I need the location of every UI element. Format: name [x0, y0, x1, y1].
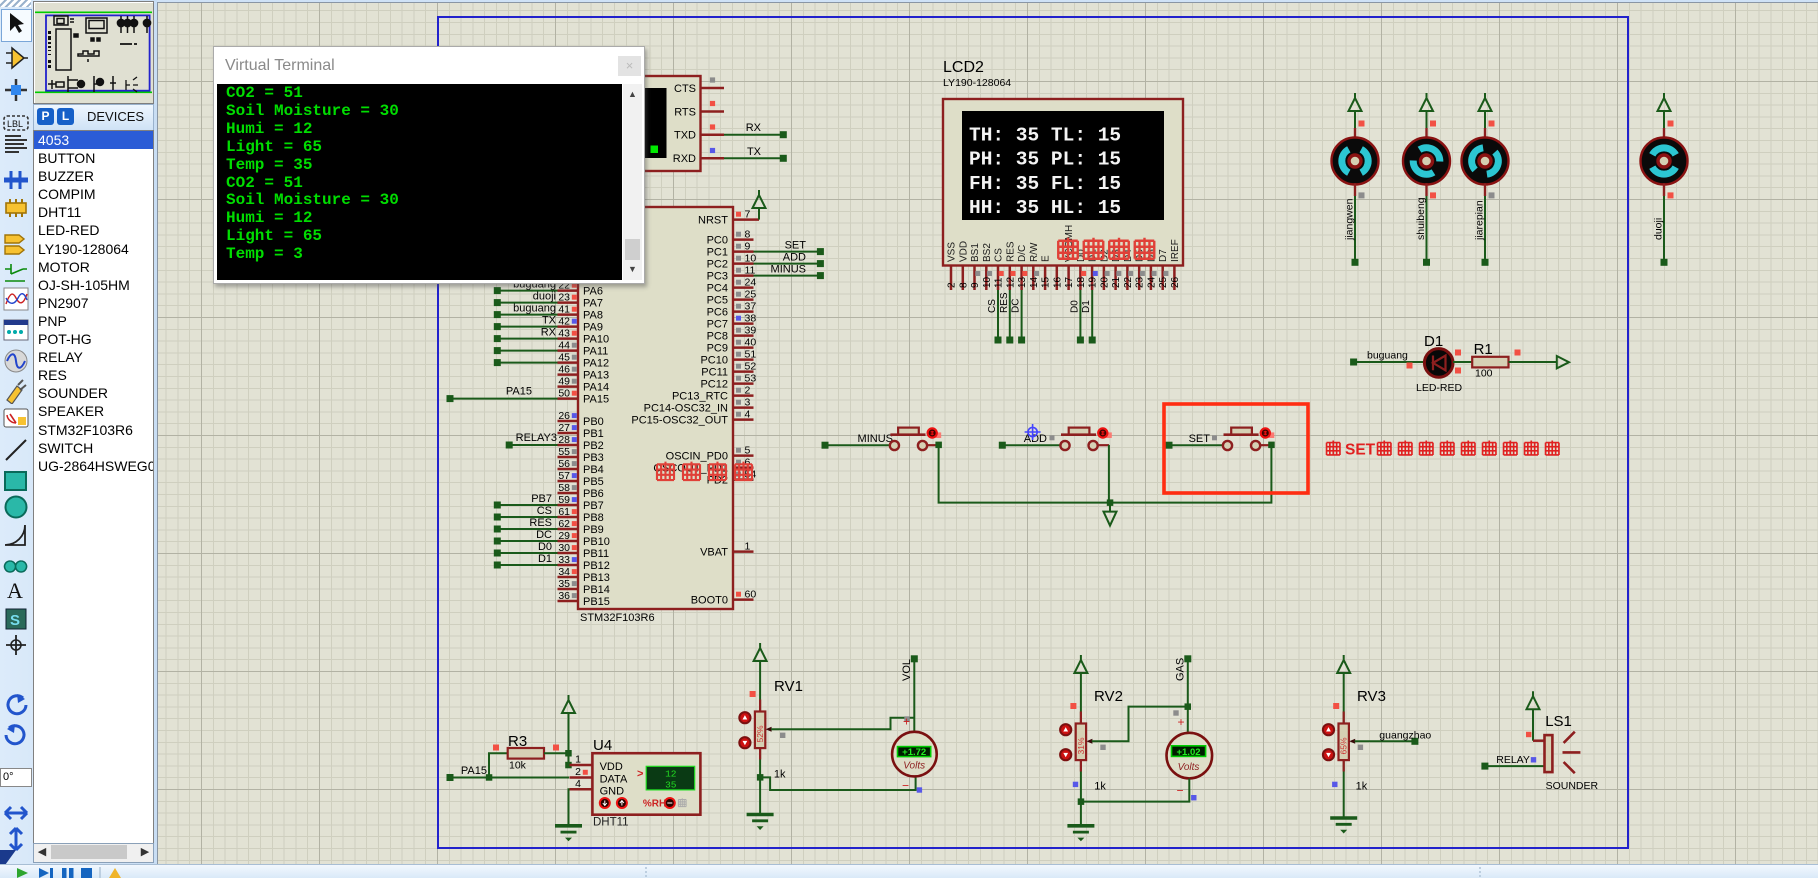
svg-text:12: 12	[665, 769, 677, 780]
power symbol above RV1	[754, 643, 767, 712]
svg-text:BOOT0: BOOT0	[691, 594, 728, 606]
terminal VOL	[901, 655, 918, 732]
svg-text:PA15: PA15	[461, 765, 487, 777]
red annotation text 按SET键进入报警参数设置	[1327, 441, 1559, 459]
svg-text:jiangwen: jiangwen	[1344, 198, 1356, 241]
bottom status / simulation bar	[0, 864, 1818, 878]
wire RV2 bottom to voltmeter minus	[1081, 779, 1197, 802]
svg-text:FH: 35 FL: 15: FH: 35 FL: 15	[969, 173, 1121, 195]
svg-text:1: 1	[575, 754, 581, 766]
svg-text:D0: D0	[538, 541, 552, 553]
svg-text:RELAY: RELAY	[1496, 754, 1530, 766]
svg-text:8: 8	[958, 282, 969, 288]
svg-text:PB4: PB4	[583, 464, 604, 476]
svg-text:39: 39	[745, 324, 757, 336]
svg-text:buguang: buguang	[1367, 350, 1408, 362]
svg-text:30: 30	[558, 542, 570, 554]
svg-text:TX: TX	[542, 315, 557, 327]
schematic sheet border	[438, 17, 1628, 848]
svg-text:PC0: PC0	[707, 234, 728, 246]
svg-text:MINUS: MINUS	[771, 264, 806, 276]
DHT11 sensor U4	[570, 737, 701, 829]
svg-text:60: 60	[745, 588, 757, 600]
svg-text:VDD: VDD	[958, 241, 969, 262]
svg-text:58: 58	[558, 482, 570, 494]
wire RES from LCD2	[999, 290, 1014, 344]
svg-text:+1.72: +1.72	[902, 747, 926, 758]
svg-text:CS: CS	[987, 299, 998, 313]
svg-text:DC: DC	[536, 529, 552, 541]
svg-text:E: E	[1041, 255, 1052, 262]
svg-text:PC5: PC5	[707, 294, 728, 306]
svg-text:2: 2	[575, 766, 581, 778]
svg-text:27: 27	[558, 422, 570, 434]
svg-text:PA13: PA13	[583, 369, 609, 381]
ground symbol below RV1	[747, 815, 774, 831]
svg-text:28: 28	[558, 434, 570, 446]
svg-text:PB14: PB14	[583, 584, 610, 596]
svg-text:LED-RED: LED-RED	[1416, 382, 1463, 394]
svg-text:PB0: PB0	[583, 416, 604, 428]
potentiometer RV1 1k	[739, 678, 803, 813]
svg-text:NRST: NRST	[698, 214, 728, 226]
svg-text:buguang: buguang	[513, 303, 556, 315]
svg-text:PB7: PB7	[583, 500, 604, 512]
svg-text:D6: D6	[1146, 249, 1157, 262]
svg-text:Volts: Volts	[1178, 762, 1200, 773]
svg-text:CTS: CTS	[674, 83, 696, 95]
svg-text:PA11: PA11	[583, 345, 608, 357]
svg-text:1k: 1k	[774, 769, 786, 781]
svg-text:jiarepian: jiarepian	[1474, 200, 1486, 241]
svg-text:RES: RES	[999, 292, 1010, 313]
svg-text:RV1: RV1	[774, 678, 803, 695]
wire RX from COMPIM TXD	[724, 122, 787, 138]
LCD2 LY190-128064 graphic display	[943, 59, 1183, 290]
wire RX to U1 left pin	[494, 327, 558, 343]
svg-text:+: +	[1177, 715, 1184, 729]
svg-text:PH: 35 PL: 15: PH: 35 PL: 15	[969, 149, 1121, 171]
wire from ADD button down to ground bus	[1108, 445, 1110, 503]
wire D1 from LCD2	[1081, 290, 1096, 344]
svg-text:23: 23	[558, 291, 570, 303]
svg-text:shuibeng: shuibeng	[1415, 197, 1427, 240]
sounder LS1	[1545, 713, 1599, 792]
svg-text:DC: DC	[1011, 299, 1022, 313]
svg-text:57: 57	[558, 470, 570, 482]
wire D0 from LCD2	[1069, 290, 1084, 344]
svg-text:PA10: PA10	[583, 333, 609, 345]
wire MINUS from U1	[754, 264, 824, 280]
svg-text:16: 16	[1052, 276, 1063, 288]
right-pointing terminal arrow	[1557, 356, 1569, 368]
svg-text:52: 52	[745, 360, 757, 372]
svg-text:45: 45	[558, 351, 570, 363]
svg-text:GND: GND	[600, 786, 625, 798]
svg-text:10k: 10k	[509, 760, 527, 772]
svg-text:38: 38	[745, 312, 757, 324]
power symbol above RV3	[1337, 655, 1350, 724]
motor jiarepian	[1462, 93, 1509, 266]
svg-text:>: >	[637, 768, 643, 780]
svg-text:PB2: PB2	[583, 440, 604, 452]
svg-text:51: 51	[745, 348, 757, 360]
svg-text:D1: D1	[1081, 300, 1092, 313]
svg-text:DATA: DATA	[600, 774, 628, 786]
svg-text:OSCIN_PD0: OSCIN_PD0	[666, 450, 728, 462]
svg-text:TX: TX	[747, 146, 762, 158]
svg-text:PC3: PC3	[707, 270, 728, 282]
svg-text:1k: 1k	[1094, 781, 1106, 793]
state squares near D1 and R1	[1407, 350, 1521, 374]
ground symbol below DHT11	[555, 826, 582, 842]
LED D1 LED-RED	[1350, 333, 1462, 394]
svg-text:9: 9	[970, 282, 981, 288]
wire TX from COMPIM RXD	[724, 146, 787, 162]
svg-text:CS: CS	[537, 505, 552, 517]
svg-text:41: 41	[558, 303, 570, 315]
svg-text:LS1: LS1	[1545, 713, 1572, 730]
svg-text:40: 40	[745, 336, 757, 348]
svg-text:TH: 35 TL: 15: TH: 35 TL: 15	[969, 125, 1121, 147]
svg-text:RX: RX	[746, 122, 762, 134]
svg-text:guangzhao: guangzhao	[1379, 730, 1431, 742]
svg-text:D/C: D/C	[1017, 245, 1028, 262]
potentiometer RV2 1k	[1060, 688, 1123, 825]
wire ADD from U1	[754, 252, 824, 268]
svg-text:RES: RES	[1005, 241, 1016, 262]
wire duoji to U1 left pin	[494, 291, 558, 307]
svg-text:14: 14	[1029, 276, 1040, 288]
svg-text:TXD: TXD	[674, 130, 696, 142]
svg-text:VSS: VSS	[947, 242, 958, 262]
svg-text:ADD: ADD	[783, 252, 806, 264]
wire TX to U1 left pin	[494, 315, 558, 331]
push button MINUS	[822, 428, 942, 451]
svg-text:5: 5	[745, 444, 751, 456]
svg-text:7: 7	[745, 208, 751, 220]
motor jiangwen	[1332, 93, 1379, 266]
wire R1 to terminal	[1509, 361, 1557, 363]
red watermark text over U1	[657, 462, 752, 480]
svg-text:Volts: Volts	[903, 761, 925, 772]
svg-text:D1: D1	[538, 553, 552, 565]
svg-text:RX: RX	[541, 327, 557, 339]
svg-text:D7: D7	[1158, 249, 1169, 262]
wire from SET button down to ground bus	[1107, 445, 1272, 506]
svg-text:53: 53	[745, 372, 757, 384]
svg-text:PB6: PB6	[583, 488, 604, 500]
svg-text:29: 29	[558, 530, 570, 542]
svg-text:61: 61	[558, 506, 570, 518]
svg-text:35: 35	[665, 780, 677, 791]
wire DC from LCD2	[1011, 290, 1026, 344]
svg-text:4: 4	[575, 778, 581, 790]
svg-text:D1: D1	[1424, 333, 1443, 350]
svg-text:SET: SET	[1189, 433, 1211, 445]
potentiometer RV3 1k	[1323, 688, 1386, 817]
wire buguang to U1 left pin	[494, 279, 558, 295]
svg-text:55: 55	[558, 446, 570, 458]
svg-text:22: 22	[1123, 276, 1134, 288]
svg-text:VOL: VOL	[901, 659, 913, 681]
svg-text:RV2: RV2	[1094, 688, 1123, 705]
wire RV2 wiper to GAS node	[1092, 707, 1188, 742]
left sidebar	[0, 0, 157, 877]
svg-text:PC4: PC4	[707, 282, 728, 294]
wire RV1 wiper to voltmeter	[771, 718, 914, 730]
microcontroller U1 STM32F103R6	[558, 207, 757, 624]
svg-text:46: 46	[558, 363, 570, 375]
svg-text:PB3: PB3	[583, 452, 604, 464]
svg-text:100: 100	[1475, 368, 1493, 380]
svg-text:34: 34	[558, 566, 570, 578]
svg-text:11: 11	[994, 277, 1005, 288]
svg-text:PB1: PB1	[583, 428, 604, 440]
svg-text:PA15: PA15	[583, 393, 609, 405]
red watermark text over LCD2	[1058, 238, 1154, 259]
power symbol at U1 NRST	[753, 190, 766, 220]
svg-text:PA6: PA6	[583, 285, 603, 297]
svg-text:20: 20	[1099, 276, 1110, 288]
svg-text:PC6: PC6	[707, 306, 728, 318]
svg-text:U4: U4	[593, 737, 612, 754]
svg-text:17: 17	[1064, 276, 1075, 288]
svg-text:PA9: PA9	[583, 321, 603, 333]
wire SET from U1	[754, 240, 824, 256]
svg-text:D3: D3	[1111, 249, 1122, 262]
resistor R3 10k	[489, 733, 569, 778]
wire unnamed to U1 left pin	[494, 359, 558, 366]
svg-text:PB5: PB5	[583, 476, 604, 488]
svg-text:PA7: PA7	[583, 297, 603, 309]
svg-text:18: 18	[1076, 276, 1087, 288]
svg-text:RTS: RTS	[674, 106, 696, 118]
power symbol above LS1	[1526, 691, 1545, 741]
svg-text:PC2: PC2	[707, 258, 728, 270]
svg-text:PB8: PB8	[583, 512, 604, 524]
svg-text:LY190-128064: LY190-128064	[943, 77, 1011, 89]
svg-text:STM32F103R6: STM32F103R6	[580, 612, 655, 624]
svg-text:PC1: PC1	[707, 246, 728, 258]
svg-text:PA14: PA14	[583, 381, 609, 393]
power symbol above RV2	[1074, 655, 1087, 724]
svg-text:PB15: PB15	[583, 596, 610, 608]
svg-text:SET: SET	[1345, 442, 1376, 459]
wire from MINUS button down to ground bus	[939, 445, 1110, 503]
wire RV3 wiper guangzhao	[1355, 730, 1432, 745]
push button SET	[1166, 428, 1275, 451]
svg-text:R1: R1	[1474, 341, 1493, 358]
svg-text:52%: 52%	[755, 725, 765, 742]
svg-text:62: 62	[558, 518, 570, 530]
svg-text:25: 25	[1158, 276, 1169, 288]
svg-text:25: 25	[745, 288, 757, 300]
svg-text:24: 24	[745, 276, 757, 288]
ground symbol below RV2	[1067, 826, 1094, 842]
svg-text:PA15: PA15	[506, 386, 532, 398]
svg-text:43: 43	[558, 327, 570, 339]
svg-text:35: 35	[558, 578, 570, 590]
red highlight rectangle around SET button	[1164, 404, 1308, 493]
svg-text:13: 13	[1017, 276, 1028, 288]
svg-text:GAS: GAS	[1175, 658, 1187, 681]
svg-text:BS1: BS1	[970, 243, 981, 262]
svg-text:RELAY3: RELAY3	[516, 432, 557, 444]
svg-text:PB11: PB11	[583, 548, 609, 560]
svg-text:8: 8	[745, 228, 751, 240]
svg-text:PC14-OSC32_IN: PC14-OSC32_IN	[644, 402, 728, 414]
svg-text:SOUNDER: SOUNDER	[1546, 780, 1599, 792]
svg-text:+1.02: +1.02	[1176, 747, 1200, 758]
svg-text:duoji: duoji	[1653, 218, 1665, 240]
svg-text:PB10: PB10	[583, 536, 610, 548]
svg-text:65%: 65%	[1339, 737, 1349, 754]
svg-text:PC9: PC9	[707, 342, 728, 354]
svg-text:15: 15	[1041, 276, 1052, 288]
svg-text:33: 33	[558, 554, 570, 566]
svg-text:1: 1	[745, 540, 751, 552]
svg-text:PB13: PB13	[583, 572, 610, 584]
terminal GAS	[1173, 655, 1191, 732]
svg-text:CS: CS	[994, 248, 1005, 262]
svg-text:10: 10	[982, 276, 993, 288]
svg-text:PB7: PB7	[531, 493, 552, 505]
svg-text:+: +	[903, 715, 910, 729]
svg-text:MINUS: MINUS	[858, 433, 893, 445]
wire PA15 net to U1 pin 50	[447, 386, 558, 403]
svg-text:4: 4	[745, 408, 751, 420]
wire unnamed to U1 left pin	[494, 347, 558, 354]
serial port COMPIM P1	[628, 76, 724, 171]
svg-text:VBAT: VBAT	[700, 546, 728, 558]
svg-text:PA8: PA8	[583, 309, 603, 321]
svg-text:duoji: duoji	[533, 291, 556, 303]
svg-text:SET: SET	[785, 240, 807, 252]
svg-text:PA12: PA12	[583, 357, 609, 369]
svg-text:19: 19	[1088, 276, 1099, 288]
svg-text:3: 3	[745, 396, 751, 408]
svg-text:50: 50	[558, 387, 570, 399]
svg-text:HH: 35 HL: 15: HH: 35 HL: 15	[969, 197, 1121, 219]
svg-text:1k: 1k	[1356, 781, 1368, 793]
svg-text:26: 26	[558, 410, 570, 422]
wire PA15 net to DHT11 DATA	[447, 765, 570, 781]
ground symbol below buttons	[1104, 503, 1117, 526]
svg-text:PC7: PC7	[707, 318, 728, 330]
wire DHT11 GND to ground	[569, 789, 570, 824]
svg-text:LCD2: LCD2	[943, 59, 984, 76]
ground symbol below RV3	[1330, 818, 1357, 834]
svg-text:PC11: PC11	[701, 366, 728, 378]
svg-text:31%: 31%	[1076, 737, 1086, 754]
svg-text:9: 9	[745, 240, 751, 252]
wire D0 to U1 left pin	[494, 541, 558, 557]
svg-text:37: 37	[745, 300, 757, 312]
svg-text:LBL: LBL	[7, 119, 23, 129]
wire CS to U1 left pin	[494, 505, 558, 521]
svg-text:RXD: RXD	[673, 153, 696, 165]
wire DC to U1 left pin	[494, 529, 558, 545]
wire RES to U1 left pin	[494, 517, 558, 533]
svg-text:%RH: %RH	[643, 799, 666, 810]
svg-text:PC15-OSC32_OUT: PC15-OSC32_OUT	[631, 414, 728, 426]
svg-text:23: 23	[1135, 276, 1146, 288]
svg-text:PB12: PB12	[583, 560, 610, 572]
svg-text:−: −	[902, 779, 909, 793]
wire buguang to U1 left pin	[494, 303, 558, 319]
svg-text:IREF: IREF	[1170, 239, 1181, 262]
svg-text:BS2: BS2	[982, 243, 993, 262]
svg-text:56: 56	[558, 458, 570, 470]
voltmeter on GAS net	[1167, 715, 1213, 798]
Virtual Terminal popup window	[213, 46, 645, 284]
svg-text:49: 49	[558, 375, 570, 387]
svg-text:PC13_RTC: PC13_RTC	[672, 390, 728, 402]
motor shuibeng	[1403, 93, 1450, 266]
svg-text:42: 42	[558, 315, 570, 327]
svg-text:PC10: PC10	[700, 354, 728, 366]
origin marker near ADD	[1025, 424, 1041, 440]
svg-text:26: 26	[1170, 276, 1181, 288]
push button ADD	[999, 428, 1112, 451]
voltmeter on VOL net	[892, 715, 937, 793]
wire PB7 to U1 left pin	[494, 493, 558, 509]
svg-text:S: S	[10, 612, 20, 629]
svg-text:PC8: PC8	[707, 330, 728, 342]
svg-text:VDD: VDD	[600, 761, 623, 773]
wire RV1 bottom to voltmeter minus	[760, 776, 922, 792]
svg-text:36: 36	[558, 590, 570, 602]
svg-text:12: 12	[1005, 276, 1016, 288]
svg-text:PB9: PB9	[583, 524, 604, 536]
svg-text:A: A	[7, 578, 23, 603]
svg-text:44: 44	[558, 339, 570, 351]
wire D1 to U1 left pin	[494, 553, 558, 569]
svg-text:D0: D0	[1069, 300, 1080, 313]
power symbol above DHT11	[562, 695, 575, 768]
svg-text:PC12: PC12	[700, 378, 728, 390]
wire RELAY3 to U1 PB2	[506, 432, 558, 449]
svg-text:59: 59	[558, 494, 570, 506]
svg-text:DHT11: DHT11	[593, 817, 629, 829]
svg-text:RV3: RV3	[1357, 688, 1386, 705]
resistor R1 100	[1472, 341, 1508, 380]
wire D1 to R1	[1453, 361, 1472, 363]
svg-text:R3: R3	[508, 733, 527, 750]
svg-text:R/W: R/W	[1029, 242, 1040, 262]
svg-text:24: 24	[1146, 276, 1157, 288]
svg-text:2: 2	[947, 282, 958, 288]
svg-text:2: 2	[745, 384, 751, 396]
svg-text:RES: RES	[529, 517, 552, 529]
wire CS from LCD2	[987, 290, 1002, 344]
wire RELAY to sounder	[1481, 754, 1544, 770]
svg-text:−: −	[1176, 784, 1183, 798]
svg-text:21: 21	[1111, 276, 1122, 288]
motor duoji	[1641, 93, 1688, 266]
